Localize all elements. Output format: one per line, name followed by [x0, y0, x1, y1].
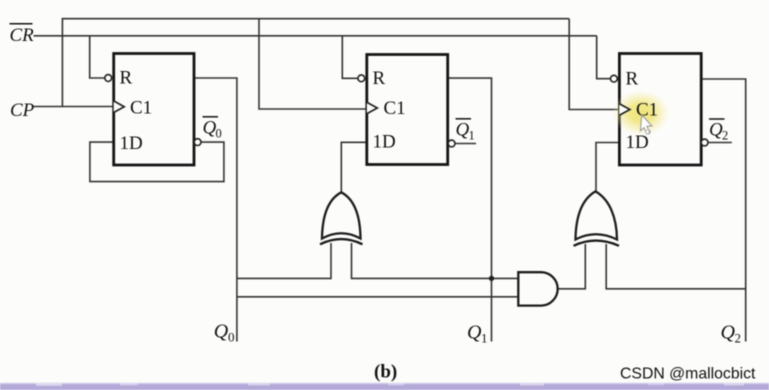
svg-text:0: 0	[216, 127, 222, 141]
U2 R input bubble	[358, 75, 365, 82]
U1 Qbar output bubble	[194, 139, 201, 146]
wire U3 Q output down to node Q2	[701, 79, 746, 342]
U3 R input bubble	[611, 75, 618, 82]
wire U2 1D lead from XOR G1 output	[341, 142, 367, 193]
wire CP top bus	[62, 18, 569, 20]
U2 clock triangle	[367, 102, 378, 114]
svg-text:CP: CP	[10, 100, 35, 121]
U2 Qbar output bubble	[448, 140, 455, 147]
svg-text:1D: 1D	[373, 132, 396, 153]
wire CP drop to U2 C1	[259, 19, 367, 109]
svg-text:C1: C1	[130, 98, 152, 119]
wire XOR G2 right input to node Q2	[606, 244, 746, 289]
U1 R input bubble	[105, 75, 112, 82]
svg-text:2: 2	[722, 129, 728, 143]
svg-text:1: 1	[481, 331, 488, 346]
svg-text:Q: Q	[721, 322, 736, 344]
svg-text:CR: CR	[10, 25, 35, 46]
svg-text:Q: Q	[456, 120, 470, 141]
wire U1 Q output down to node Q0	[194, 78, 237, 342]
svg-text:1D: 1D	[626, 132, 649, 153]
svg-text:R: R	[373, 68, 386, 89]
wire CP drop to U3 C1	[569, 19, 619, 110]
wire U3 1D lead from XOR G2 output	[596, 143, 619, 193]
svg-text:Q: Q	[214, 321, 229, 343]
flip-flop U1 box	[114, 54, 194, 166]
label Qbar2 output	[709, 119, 728, 143]
cursor busy ring	[646, 130, 651, 135]
XOR gate G1 body	[322, 192, 361, 238]
svg-text:C1: C1	[384, 98, 406, 119]
highlight glow on U3 C1	[612, 90, 670, 136]
wire U2 Qbar stub	[455, 143, 476, 145]
watermark bar	[0, 383, 769, 390]
U1 clock triangle	[114, 101, 125, 113]
flip-flop U2 box	[367, 55, 448, 165]
label node Q0	[214, 321, 235, 345]
wire U3 Qbar stub	[708, 142, 732, 144]
label Qbar0 output	[203, 117, 222, 141]
svg-text:C1: C1	[636, 100, 658, 121]
label node Q1	[467, 322, 488, 346]
svg-text:Q: Q	[467, 322, 482, 344]
wire CP riser from CP input to top bus	[61, 18, 63, 107]
wire CR drop to U1 R	[90, 36, 105, 78]
svg-text:R: R	[120, 68, 133, 89]
U3 Qbar output bubble	[701, 139, 708, 146]
label Qbar1 output	[456, 119, 475, 143]
wire CR drop to U3 R	[597, 36, 610, 79]
svg-text:R: R	[626, 69, 639, 90]
XOR gate G2 second input arc	[574, 241, 620, 246]
wire AND G3 output to XOR G2 left input	[558, 244, 586, 289]
U3 clock triangle	[619, 104, 630, 116]
svg-text:Q: Q	[709, 120, 723, 141]
XOR gate G1 second input arc	[320, 239, 363, 244]
wire Q0 bus to AND G3 input 2	[237, 296, 518, 298]
svg-text:Q: Q	[203, 118, 217, 139]
svg-text:2: 2	[735, 331, 742, 346]
XOR gate G2 body	[576, 191, 618, 239]
wire XOR G1 right input to AND G3 input 1	[352, 243, 519, 278]
svg-text:CSDN @mallocbict: CSDN @mallocbict	[620, 366, 756, 383]
wire CR drop to U2 R	[342, 36, 357, 79]
wire Q0 to XOR G1 left input	[237, 243, 331, 278]
svg-text:1D: 1D	[120, 133, 143, 154]
label node Q2	[721, 322, 742, 346]
svg-text:0: 0	[228, 330, 235, 345]
wire CR bus	[34, 35, 597, 37]
wire CP lead to U1 C1	[33, 106, 114, 108]
label CR with overline	[10, 24, 35, 46]
wire U2 Q output down to node Q1	[448, 78, 492, 341]
wire U1 Qbar feedback loop to U1 1D	[90, 142, 224, 182]
AND gate G3 body	[518, 272, 557, 305]
svg-text:1: 1	[469, 129, 475, 143]
junction dot Q1 to AND input	[489, 276, 494, 281]
mouse cursor arrow	[640, 115, 652, 134]
svg-text:(b): (b)	[374, 362, 397, 383]
flip-flop U3 box	[619, 54, 701, 166]
